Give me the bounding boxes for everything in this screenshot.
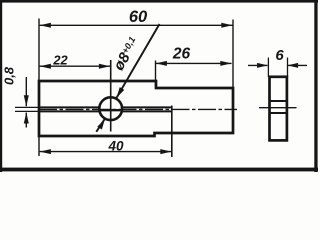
extension line: step at x155 (for dim 26) [155, 61, 157, 89]
side view center line [259, 107, 297, 109]
hole circle ø8+0.1 [99, 97, 122, 120]
border frame bottom [0, 168, 318, 172]
dimension 0.8 [2, 66, 29, 127]
dimension 40 [40, 138, 172, 154]
dimension 60 [40, 8, 233, 28]
dimension 26 [156, 46, 232, 66]
center line vertical through hole [110, 60, 112, 132]
slot line upper [39, 106, 100, 108]
side view internal line lower [269, 112, 287, 114]
border frame left [0, 0, 2, 172]
side view internal line upper [269, 100, 287, 102]
leader ø8+0,1 [96, 24, 159, 132]
svg-text:26: 26 [172, 46, 191, 63]
svg-text:60: 60 [129, 8, 148, 26]
svg-text:40: 40 [107, 138, 124, 153]
side view rectangle [270, 77, 287, 141]
dimension 6 extension lines [267, 58, 269, 78]
extension line: part left edge (for dims 60/22/40) [38, 19, 40, 157]
svg-text:6: 6 [275, 47, 284, 64]
dimension 0.8 extension ticks [15, 106, 39, 108]
svg-text:22: 22 [52, 52, 67, 67]
border frame top [0, 0, 318, 3]
center line horizontal of part [39, 108, 237, 110]
extension line: slot end (for dim 40) [171, 106, 173, 158]
part outline (main view) [39, 81, 233, 136]
dimension 22 [40, 52, 111, 68]
border frame right [314, 0, 317, 172]
slot line lower [39, 110, 100, 112]
dimension 6 [248, 47, 307, 68]
extension line: part right end (for dims 60/26) [232, 20, 234, 89]
slot lower line through hole (print blob) [100, 109, 123, 111]
svg-text:0,8: 0,8 [2, 66, 17, 85]
